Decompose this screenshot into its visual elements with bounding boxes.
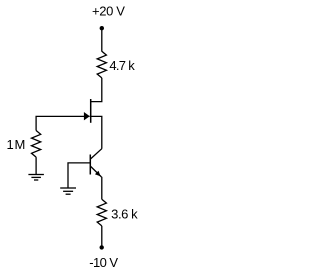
svg-text:+20 V: +20 V: [92, 4, 125, 19]
svg-text:1 M: 1 M: [7, 137, 26, 152]
svg-text:4.7 k: 4.7 k: [109, 58, 135, 73]
svg-text:-10 V: -10 V: [89, 255, 118, 270]
svg-text:3.6 k: 3.6 k: [111, 207, 138, 222]
